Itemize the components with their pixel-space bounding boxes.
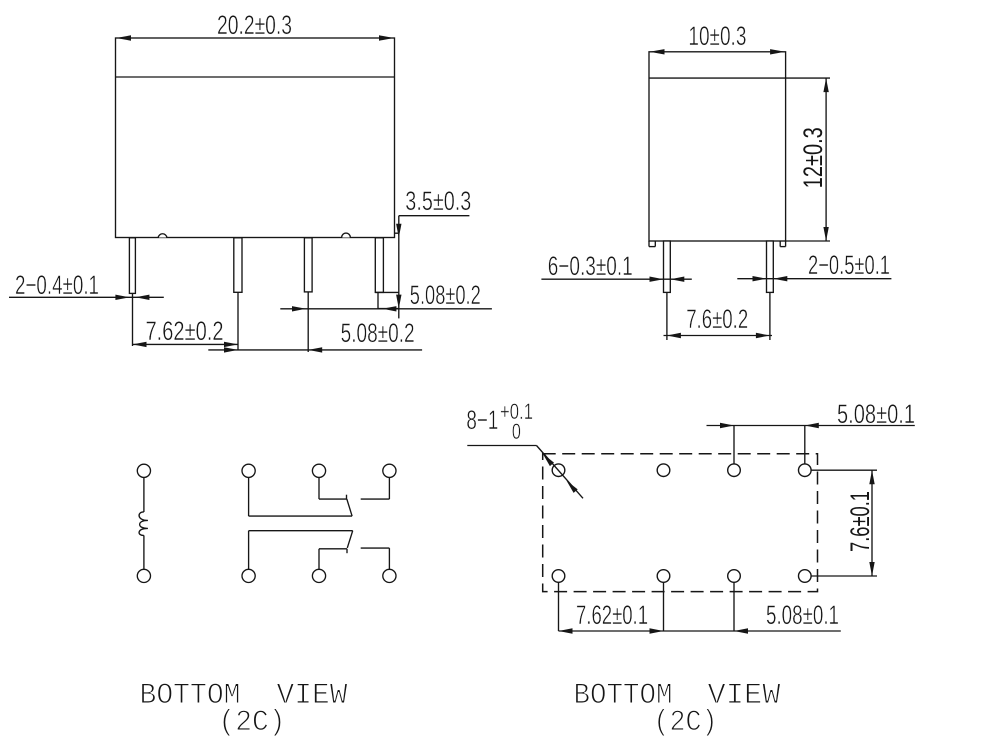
hole top row 2 xyxy=(657,464,670,477)
pin 2 extension line xyxy=(237,292,239,350)
hole top row 1 xyxy=(552,464,565,477)
pcb layout dashed rectangle xyxy=(543,454,818,592)
hole bottom row 3 xyxy=(728,570,741,583)
side view cover seam line xyxy=(649,77,786,79)
leader arrow at hole edge xyxy=(567,481,578,493)
pin 4 solder tab xyxy=(375,291,399,293)
relay body side view outline xyxy=(649,52,786,241)
svg-text:10±0.3: 10±0.3 xyxy=(688,21,746,51)
wire nc bottom vertical xyxy=(318,549,320,570)
dim 7.62 arrow right xyxy=(224,342,238,347)
svg-text:7.6±0.1: 7.6±0.1 xyxy=(845,491,875,552)
svg-text:5.08±0.2: 5.08±0.2 xyxy=(410,280,481,310)
svg-text:7.62±0.2: 7.62±0.2 xyxy=(146,316,224,346)
svg-text:2−0.5±0.1: 2−0.5±0.1 xyxy=(808,250,890,280)
dim 6-0.3 arrow pointing left xyxy=(670,277,684,282)
wire no top vertical xyxy=(388,477,390,499)
leader 8-1 horizontal xyxy=(467,445,536,447)
dim 7.62 bottom arrow right xyxy=(650,628,664,633)
dim 10 arrow right xyxy=(770,49,785,54)
svg-text:7.6±0.2: 7.6±0.2 xyxy=(686,304,748,334)
dim 2-0.4 leader line xyxy=(9,296,164,298)
wire no top horizontal xyxy=(361,498,390,500)
svg-text:7.62±0.1: 7.62±0.1 xyxy=(576,600,648,630)
schematic terminal circle top 2 xyxy=(242,464,255,477)
wire com top vertical xyxy=(248,477,250,516)
wire no bottom horizontal xyxy=(361,547,390,549)
body bottom step right xyxy=(395,232,399,234)
wire com top horizontal xyxy=(249,515,353,517)
pin 1 front view xyxy=(129,238,135,294)
dim 12 extension top xyxy=(786,77,830,79)
dim 5.08 arrow at pin4 left xyxy=(382,306,396,311)
dim 5.08 top arrow right xyxy=(720,423,734,428)
schematic terminal circle bottom 2 xyxy=(242,569,255,582)
dim 2-0.4 arrow pointing left xyxy=(135,295,149,300)
schematic terminal circle bottom 1 xyxy=(137,569,150,582)
svg-text:8−1: 8−1 xyxy=(466,405,498,435)
pin left side view xyxy=(664,241,671,292)
dim 7.6 arrow right xyxy=(756,333,770,338)
dim 10 arrow left xyxy=(650,49,665,54)
dim 7.6 right arrow down xyxy=(869,562,874,576)
dim 5.08 mid arrow at pin2 xyxy=(224,347,238,352)
leader 8-1 diagonal xyxy=(537,446,584,499)
contact tick nc bottom xyxy=(346,549,348,553)
coil wire top xyxy=(143,477,145,512)
schematic terminal circle top 4 xyxy=(383,464,396,477)
dim 12 arrow up xyxy=(823,78,828,92)
hole bottom row 4 xyxy=(799,570,812,583)
dim 6-0.3 arrow pointing right xyxy=(650,277,664,282)
dim 20.2 arrow right xyxy=(379,35,394,40)
svg-text:12±0.3: 12±0.3 xyxy=(798,127,828,188)
dim 2-0.5 arrow pointing left xyxy=(773,276,787,281)
wire nc bottom horizontal xyxy=(319,548,347,550)
svg-text:5.08±0.1: 5.08±0.1 xyxy=(766,600,839,630)
dim 7.6 line xyxy=(664,335,773,337)
dim 7.62 bottom arrow left xyxy=(559,628,573,633)
dim 12 arrow down xyxy=(823,227,828,241)
schematic terminal circle top 1 xyxy=(137,464,150,477)
switch blade top xyxy=(347,499,352,516)
pin 4 front view xyxy=(375,238,383,293)
svg-text:VIEW: VIEW xyxy=(708,679,781,713)
dim arrow down to tab bottom xyxy=(396,295,401,309)
dim 2-0.4 arrow pointing right xyxy=(115,295,129,300)
dim 5.08 mid line xyxy=(208,349,422,351)
dim 7.62 line xyxy=(133,343,239,345)
contact tick nc top xyxy=(346,495,348,499)
svg-text:VIEW: VIEW xyxy=(277,679,348,713)
dim 5.08 top extension at hole4 xyxy=(804,426,806,465)
dim 7.6 right extension top xyxy=(811,469,877,471)
side view left corner stub xyxy=(648,241,650,247)
svg-text:(2C): (2C) xyxy=(219,706,286,740)
hole3 bottom extension xyxy=(733,583,735,632)
coil symbol xyxy=(139,512,148,535)
dim 5.08 top line xyxy=(707,425,915,427)
dim 5.08 top extension at hole3 xyxy=(733,426,735,465)
coil wire bottom xyxy=(143,535,145,569)
hole top row 4 xyxy=(799,464,812,477)
dim 20.2 arrow left xyxy=(116,35,131,40)
svg-text:5.08±0.2: 5.08±0.2 xyxy=(341,318,415,348)
dim 2-0.5 arrow pointing right xyxy=(753,276,767,281)
pin 1 extension line xyxy=(132,293,134,346)
dim 5.08 top arrow left xyxy=(805,423,819,428)
hole top row 3 xyxy=(728,464,741,477)
dim bottom line xyxy=(559,630,841,632)
body bottom notch left xyxy=(158,234,167,238)
switch blade bottom xyxy=(347,531,352,548)
dim 12 extension bottom xyxy=(786,240,830,242)
dim 7.62 arrow left xyxy=(133,342,147,347)
dim 5.08 mid arrow at pin3 xyxy=(308,347,322,352)
svg-text:5.08±0.1: 5.08±0.1 xyxy=(837,399,915,429)
svg-text:2−0.4±0.1: 2−0.4±0.1 xyxy=(15,270,99,300)
hole bottom row 1 xyxy=(552,570,565,583)
side pin left extension xyxy=(666,292,668,340)
relay body front view outline xyxy=(116,38,395,238)
svg-text:3.5±0.3: 3.5±0.3 xyxy=(405,186,471,216)
dim 2-0.5 leader line xyxy=(737,278,891,280)
wire no bottom vertical xyxy=(388,548,390,569)
wire nc top horizontal xyxy=(319,498,347,500)
dim 7.6 arrow left xyxy=(667,333,681,338)
svg-text:0: 0 xyxy=(512,419,521,444)
hole1 bottom extension xyxy=(558,583,560,632)
side view right corner stub xyxy=(779,241,781,247)
pin 3 extension line xyxy=(307,292,309,352)
dim 7.6 right arrow up xyxy=(869,470,874,484)
schematic terminal circle top 3 xyxy=(312,464,325,477)
dim 5.08 bottom arrow left xyxy=(734,628,748,633)
hole bottom row 2 xyxy=(657,570,670,583)
dim 7.6 right extension bottom xyxy=(811,575,877,577)
dim 12 vertical line xyxy=(825,78,827,241)
relay body cover seam line xyxy=(116,76,395,78)
dim arrow down to body bottom xyxy=(396,224,401,238)
body bottom notch right xyxy=(342,233,351,237)
hole2 bottom extension xyxy=(663,583,665,632)
schematic terminal circle bottom 3 xyxy=(312,569,325,582)
leader arrow at rect corner xyxy=(543,454,554,466)
dim 5.08 line at tab level xyxy=(280,308,492,310)
side pin right extension xyxy=(769,292,771,340)
pin 2 front view xyxy=(234,238,242,292)
dim 3.5 leader line xyxy=(399,215,470,217)
dim 5.08 arrow at pin3 right xyxy=(292,306,306,311)
dim 6-0.3 leader line xyxy=(541,278,691,280)
wire com bottom vertical xyxy=(248,531,250,570)
dim vertical line right of body xyxy=(398,216,400,319)
schematic terminal circle bottom 4 xyxy=(383,569,396,582)
pin 3 front view xyxy=(304,238,312,292)
svg-text:20.2±0.3: 20.2±0.3 xyxy=(217,10,292,40)
wire com bottom horizontal xyxy=(249,530,353,532)
pin right side view xyxy=(767,241,774,292)
dim 7.6 right vertical line xyxy=(871,470,873,576)
svg-text:(2C): (2C) xyxy=(654,706,718,740)
wire nc top vertical xyxy=(318,477,320,499)
svg-text:6−0.3±0.1: 6−0.3±0.1 xyxy=(548,251,633,281)
